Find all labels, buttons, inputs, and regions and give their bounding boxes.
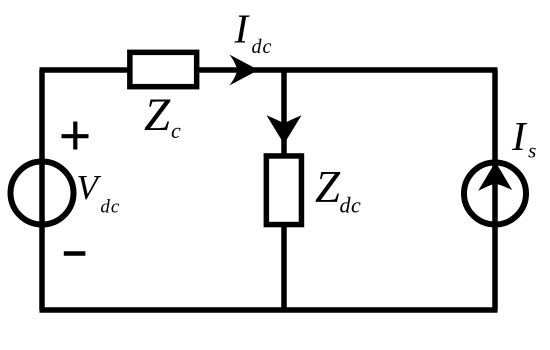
svg-text:dc: dc [252,36,273,58]
svg-text:dc: dc [340,193,362,218]
polarity minus sign [64,251,86,256]
wire: middle branch upper segment [281,70,287,156]
voltage source V_dc circle [11,162,74,225]
svg-text:s: s [528,139,536,163]
svg-text:Z: Z [315,162,341,212]
arrow: Idc current direction (right) [229,55,258,86]
resistor Zc box [130,52,197,86]
wire: left rail vertical [39,70,45,310]
wire: right rail vertical [492,70,498,310]
svg-text:c: c [171,118,181,143]
svg-text:V: V [77,168,102,207]
arrow: I_s current direction (up) [478,162,512,191]
svg-text:I: I [511,113,528,159]
wire: bottom horizontal [40,307,498,313]
wire: top-left horizontal segment [40,67,131,73]
current source I_s circle [464,163,526,225]
arrow: Zdc branch current (down) [267,115,302,144]
svg-text:I: I [234,6,251,52]
impedance Zdc box [266,156,301,225]
svg-text:Z: Z [144,89,171,141]
wire: top-right horizontal segment [197,67,498,73]
polarity plus sign [62,122,89,150]
wire: middle branch lower segment [281,225,287,310]
svg-text:dc: dc [100,197,120,218]
